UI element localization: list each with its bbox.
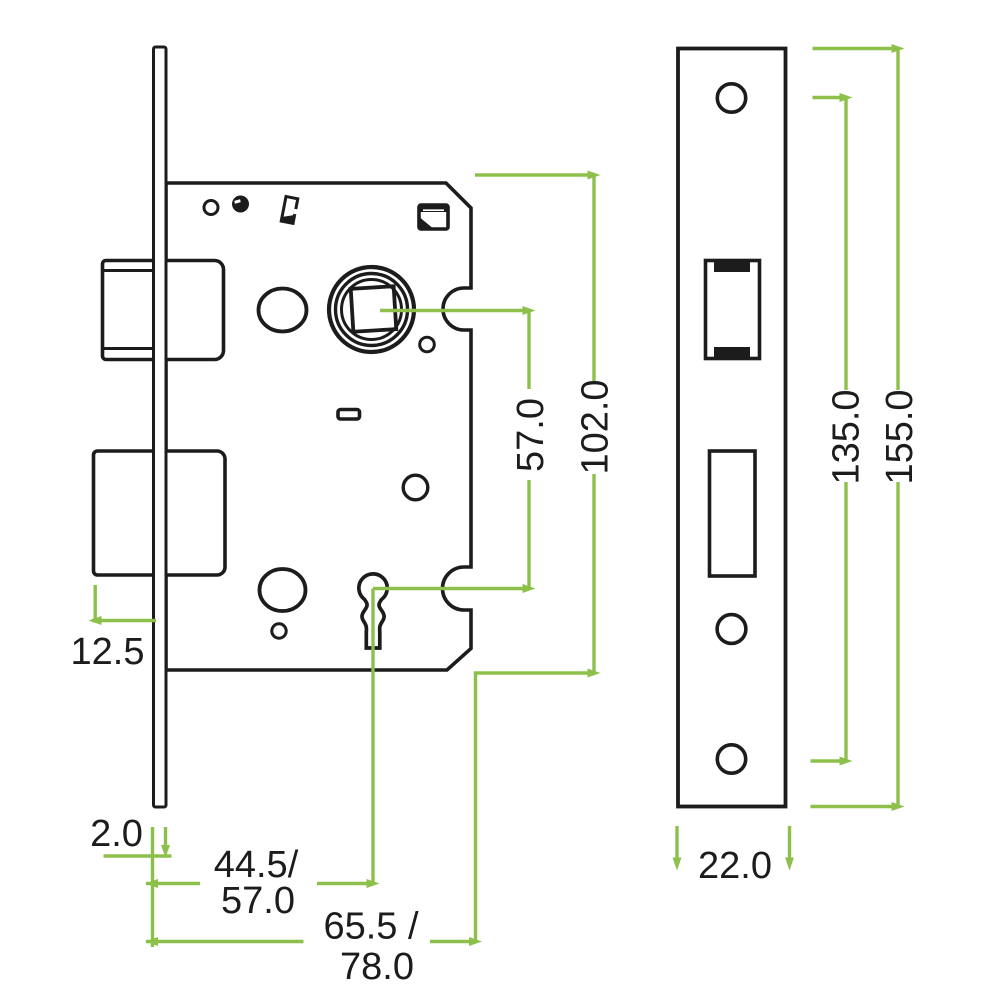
flag icon — [419, 205, 448, 229]
svg-text:78.0: 78.0 — [340, 946, 414, 988]
spindle middle circle — [336, 274, 408, 346]
dim 65.5 line — [146, 940, 304, 943]
spindle square — [351, 286, 397, 332]
arrow 44.5 left — [145, 879, 158, 888]
middle screw hole — [717, 615, 746, 644]
dim 102.0 vertical — [592, 175, 595, 381]
arrow 2.0 down — [161, 845, 170, 858]
arrow 44.5 right — [367, 879, 380, 888]
dim 102.0 extension bottom + 65.5 riser — [476, 673, 595, 942]
slot — [338, 410, 360, 420]
arrow 102 bottom — [588, 669, 601, 678]
dim 22.0 right arrow line — [788, 826, 791, 863]
svg-text:2.0: 2.0 — [90, 813, 143, 855]
dim 22.0 left arrow line — [675, 826, 678, 863]
latch aperture — [706, 261, 760, 359]
svg-text:57.0: 57.0 — [221, 880, 295, 922]
small hole right of spindle — [420, 337, 435, 352]
small hole top-left — [204, 201, 218, 215]
faceplate side view bar — [154, 47, 167, 807]
dim 155.0 extension top — [813, 47, 899, 50]
keyhole — [359, 574, 387, 648]
latch bevel top line — [103, 269, 155, 272]
deadbolt — [94, 451, 226, 575]
svg-text:57.0: 57.0 — [510, 398, 552, 472]
arrow 22 left down — [673, 858, 682, 871]
svg-text:12.5: 12.5 — [71, 631, 145, 673]
arrow 155 bottom — [892, 802, 905, 811]
svg-text:22.0: 22.0 — [698, 845, 772, 887]
dim 12.5 pointer — [92, 619, 156, 622]
arrow 102 top — [588, 171, 601, 180]
lock case outline — [166, 183, 471, 670]
dim 57.0 extension top — [380, 309, 529, 312]
svg-text:102.0: 102.0 — [575, 379, 617, 474]
top screw hole — [717, 84, 745, 112]
arrow 155 top — [892, 44, 905, 53]
dim 12.5 tick — [93, 585, 96, 621]
dim 155.0 extension bottom — [811, 805, 899, 808]
arrowheads — [89, 44, 905, 946]
dim 135.0 vertical — [844, 98, 847, 391]
faceplate front outline — [678, 49, 786, 807]
handle hole lower — [260, 569, 306, 611]
dim 57.0 vertical — [527, 311, 530, 390]
keyhole riser — [371, 589, 374, 884]
arrow 57 top — [523, 306, 536, 315]
arrow 57 bottom — [523, 584, 536, 593]
stamp mark — [281, 196, 300, 223]
latch bevel bottom line — [103, 347, 155, 350]
arrow 65.5 left — [145, 937, 158, 946]
handle hole upper — [259, 289, 307, 332]
filled rivet — [232, 196, 249, 213]
svg-text:135.0: 135.0 — [826, 389, 868, 484]
latch bolt — [103, 261, 224, 360]
spindle inner circle — [342, 280, 402, 340]
svg-text:155.0: 155.0 — [879, 389, 921, 484]
small hole below lower handle hole — [272, 624, 286, 638]
dim 155.0 vertical — [896, 49, 899, 391]
dimension labels — [71, 379, 921, 988]
mid small hole — [403, 475, 428, 500]
dim 57.0 extension bottom — [373, 587, 529, 590]
dim 2.0 pointer — [104, 854, 172, 857]
deadbolt aperture — [710, 451, 756, 576]
arrow 135 top — [840, 93, 853, 102]
bottom screw hole — [717, 745, 745, 773]
dim 102.0 extension top — [475, 173, 594, 176]
dim 135.0 extension top — [813, 96, 847, 99]
arrow 135 bottom — [840, 757, 853, 766]
arrow 65.5 right — [469, 937, 482, 946]
arrow 22 right down — [785, 858, 794, 871]
dim 2.0 ticks — [151, 827, 154, 947]
dim 44.5 line — [146, 882, 200, 885]
svg-text:65.5 /: 65.5 / — [323, 906, 419, 948]
spindle outer circle — [329, 267, 414, 352]
dim 135.0 extension bottom — [811, 759, 847, 762]
arrow 12.5 left — [89, 616, 102, 625]
